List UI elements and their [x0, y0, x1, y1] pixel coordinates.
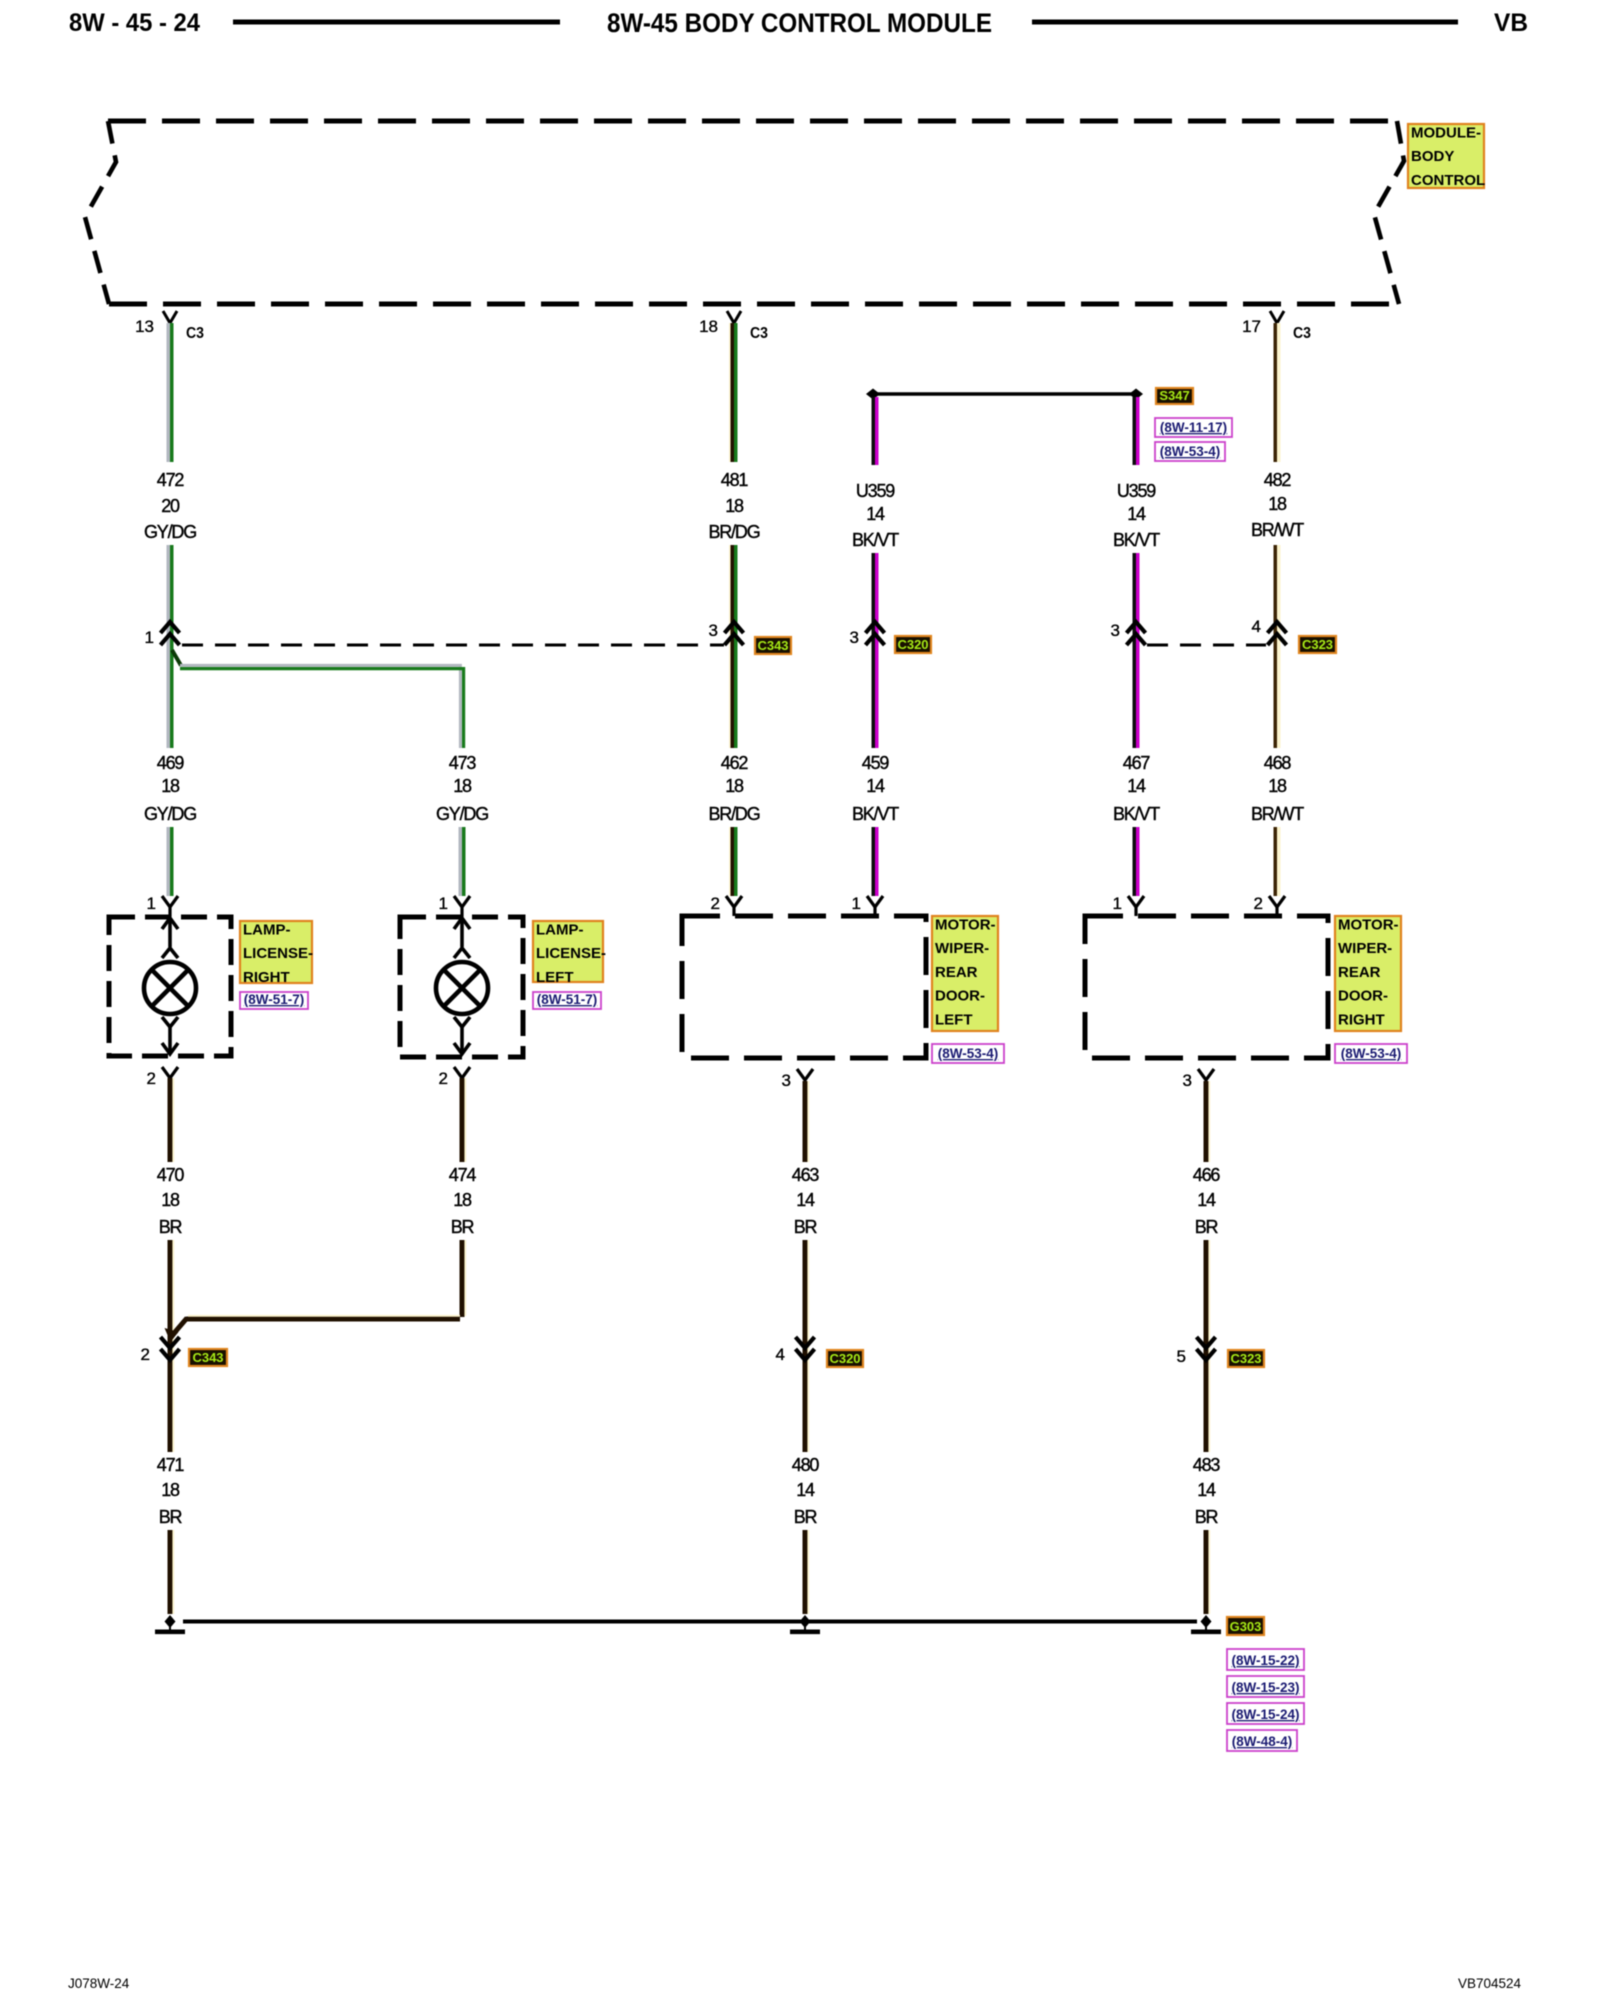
- svg-text:VB: VB: [1494, 9, 1528, 37]
- svg-text:1: 1: [1113, 894, 1122, 913]
- pin lamp right pin 1: [162, 896, 178, 907]
- svg-text:C3: C3: [1293, 325, 1311, 342]
- wire 463 upper: [805, 1081, 808, 1162]
- wire 474 lower with branch into C343: [165, 1240, 466, 1342]
- pin motor right pin 2: [1269, 896, 1285, 907]
- svg-text:CONTROL: CONTROL: [1411, 172, 1485, 189]
- svg-text:C320: C320: [897, 637, 928, 652]
- svg-text:DOOR-: DOOR-: [1338, 988, 1388, 1005]
- svg-text:(8W-53-4): (8W-53-4): [1160, 444, 1221, 459]
- wire 470 lower: [170, 1240, 173, 1452]
- svg-text:1: 1: [439, 894, 448, 913]
- svg-text:MOTOR-: MOTOR-: [1338, 917, 1399, 934]
- in-line connector C323 dashed line: [1147, 644, 1266, 647]
- motor-wiper-rear door-left box: [682, 916, 926, 1058]
- wire label 474 18 BR: [449, 1165, 477, 1237]
- pin C3 pin 13: [163, 311, 177, 323]
- svg-text:(8W-15-22): (8W-15-22): [1232, 1653, 1300, 1668]
- pin C3 pin 18: [727, 311, 741, 323]
- connector label S347: [1156, 388, 1193, 404]
- reference link 8W-53-4 motor right: [1335, 1044, 1407, 1063]
- wire U359 right leg: [1134, 397, 1138, 465]
- svg-text:C323: C323: [1230, 1351, 1261, 1366]
- connector symbol C343 pin 1: [161, 622, 180, 645]
- svg-text:18: 18: [725, 776, 744, 796]
- svg-text:2: 2: [1254, 894, 1263, 913]
- wire 468 lower: [1275, 827, 1279, 896]
- wire label 481 18 BR/DG: [708, 470, 759, 542]
- svg-text:14: 14: [866, 504, 885, 524]
- svg-text:BR: BR: [159, 1507, 183, 1527]
- ground bus wire: [183, 1620, 1197, 1624]
- svg-text:DOOR-: DOOR-: [935, 988, 985, 1005]
- wire label 480 14 BR: [792, 1455, 820, 1527]
- svg-text:474: 474: [449, 1165, 477, 1185]
- svg-text:LICENSE-: LICENSE-: [243, 945, 313, 962]
- wire label 459 14 BK/VT: [852, 753, 899, 824]
- svg-text:8W - 45 - 24: 8W - 45 - 24: [69, 9, 200, 37]
- connector symbol C343 pin 3: [725, 622, 744, 645]
- wire 473 branch horizontal: [180, 665, 464, 748]
- svg-text:GY/DG: GY/DG: [144, 804, 196, 824]
- svg-text:466: 466: [1193, 1165, 1221, 1185]
- svg-text:18: 18: [725, 496, 744, 516]
- reference link 8W-51-7 left: [533, 992, 601, 1009]
- svg-text:BR/WT: BR/WT: [1251, 520, 1304, 540]
- wire label 468 18 BR/WT: [1251, 753, 1304, 824]
- svg-text:BODY: BODY: [1411, 148, 1454, 165]
- wire 481 upper: [730, 323, 736, 462]
- pin motor left pin 1: [867, 896, 883, 907]
- svg-text:WIPER-: WIPER-: [1338, 940, 1392, 957]
- connector label C323 upper: [1299, 636, 1336, 653]
- wire label U359 14 BK/VT: [1113, 481, 1160, 550]
- connector label C323 lower: [1228, 1350, 1264, 1367]
- svg-text:(8W-11-17): (8W-11-17): [1160, 420, 1227, 435]
- svg-text:470: 470: [157, 1165, 185, 1185]
- pin C3 pin 17: [1270, 311, 1284, 323]
- svg-text:3: 3: [782, 1071, 791, 1090]
- wire label U359 14 BK/VT: [852, 481, 899, 550]
- svg-text:BR: BR: [1195, 1217, 1219, 1237]
- svg-text:BK/VT: BK/VT: [852, 804, 899, 824]
- svg-text:18: 18: [1268, 494, 1287, 514]
- svg-text:459: 459: [862, 753, 890, 773]
- svg-text:467: 467: [1123, 753, 1151, 773]
- svg-text:3: 3: [709, 621, 718, 640]
- svg-text:BR/DG: BR/DG: [708, 522, 759, 542]
- wire label 473 18 GY/DG: [436, 753, 488, 824]
- svg-text:462: 462: [721, 753, 749, 773]
- component label motor-wiper-rear door-right: [1335, 916, 1401, 1031]
- wire label 482 18 BR/WT: [1251, 470, 1304, 540]
- connector symbol C320 pin 3: [866, 622, 885, 645]
- svg-text:14: 14: [1127, 776, 1146, 796]
- svg-text:(8W-53-4): (8W-53-4): [1341, 1046, 1402, 1061]
- connector symbol C320 pin 4: [796, 1337, 815, 1360]
- reference link 8W-15-24: [1227, 1703, 1304, 1724]
- lamp right terminal arrow down: [162, 1017, 178, 1054]
- svg-text:18: 18: [1268, 776, 1287, 796]
- svg-text:473: 473: [449, 753, 477, 773]
- pin motor left pin 3: [797, 1069, 813, 1080]
- svg-text:C3: C3: [750, 325, 768, 342]
- reference link 8W-15-23: [1227, 1676, 1304, 1697]
- svg-text:(8W-51-7): (8W-51-7): [537, 992, 598, 1007]
- svg-text:13: 13: [135, 317, 154, 336]
- svg-text:C320: C320: [829, 1351, 860, 1366]
- svg-text:C323: C323: [1302, 637, 1333, 652]
- module-body control box right torn edge: [1374, 121, 1404, 304]
- wire label 471 18 BR: [157, 1455, 185, 1527]
- ground symbol G303 left: [155, 1615, 185, 1634]
- wire 474 upper: [462, 1078, 465, 1162]
- lamp-license-left box: [400, 917, 523, 1057]
- svg-text:BR: BR: [1195, 1507, 1219, 1527]
- wire label 472 20 GY/DG: [144, 470, 196, 542]
- svg-text:20: 20: [161, 496, 180, 516]
- pin lamp left pin 2: [454, 1067, 470, 1078]
- wire 472 lower: [168, 545, 172, 748]
- wire label 462 18 BR/DG: [708, 753, 759, 824]
- wire U359 right lower: [1134, 553, 1138, 748]
- svg-text:3: 3: [1111, 621, 1120, 640]
- wire 471 lower: [170, 1530, 173, 1614]
- svg-text:MODULE-: MODULE-: [1411, 125, 1481, 142]
- svg-text:3: 3: [850, 628, 859, 647]
- svg-text:C3: C3: [186, 325, 204, 342]
- connector label C320 upper: [895, 636, 931, 653]
- svg-text:BR/WT: BR/WT: [1251, 804, 1304, 824]
- wire label 470 18 BR: [157, 1165, 185, 1237]
- svg-text:5: 5: [1177, 1347, 1186, 1366]
- wire label 469 18 GY/DG: [144, 753, 196, 824]
- svg-text:LEFT: LEFT: [935, 1011, 973, 1028]
- pin motor right pin 1: [1128, 896, 1144, 907]
- svg-text:RIGHT: RIGHT: [243, 969, 290, 986]
- svg-text:1: 1: [147, 894, 156, 913]
- svg-text:18: 18: [453, 776, 472, 796]
- svg-text:S347: S347: [1159, 388, 1189, 403]
- svg-text:8W-45 BODY CONTROL MODULE: 8W-45 BODY CONTROL MODULE: [607, 8, 992, 38]
- component label lamp-license-left: [533, 921, 606, 986]
- header rule right: [1032, 20, 1458, 25]
- svg-text:(8W-51-7): (8W-51-7): [244, 992, 305, 1007]
- svg-text:2: 2: [141, 1345, 150, 1364]
- svg-text:REAR: REAR: [935, 964, 978, 981]
- svg-text:LAMP-: LAMP-: [243, 922, 291, 939]
- svg-text:2: 2: [439, 1069, 448, 1088]
- svg-text:14: 14: [1197, 1190, 1216, 1210]
- svg-text:482: 482: [1264, 470, 1292, 490]
- svg-text:1: 1: [852, 894, 861, 913]
- svg-text:(8W-48-4): (8W-48-4): [1232, 1734, 1293, 1749]
- svg-text:18: 18: [161, 1480, 180, 1500]
- svg-text:LICENSE-: LICENSE-: [536, 945, 606, 962]
- svg-text:14: 14: [1197, 1480, 1216, 1500]
- svg-text:BK/VT: BK/VT: [1113, 804, 1160, 824]
- wire U359 left leg: [873, 397, 877, 465]
- svg-text:U359: U359: [1117, 481, 1156, 501]
- svg-text:LAMP-: LAMP-: [536, 922, 584, 939]
- connector symbol C343 pin 2: [161, 1337, 180, 1360]
- pin motor right pin 3: [1198, 1069, 1214, 1080]
- svg-text:J078W-24: J078W-24: [68, 1976, 130, 1991]
- wire 467 lower: [1134, 827, 1138, 896]
- svg-text:14: 14: [796, 1190, 815, 1210]
- wire U359 left lower: [873, 553, 877, 748]
- svg-text:VB704524: VB704524: [1458, 1976, 1522, 1991]
- lamp right terminal arrow up: [162, 918, 178, 958]
- reference link 8W-53-4 motor left: [932, 1044, 1004, 1063]
- svg-text:BR/DG: BR/DG: [708, 804, 759, 824]
- svg-text:18: 18: [161, 776, 180, 796]
- connector label C343 upper: [755, 637, 791, 654]
- splice S347 right junction: [1129, 389, 1143, 400]
- svg-text:BR: BR: [451, 1217, 475, 1237]
- header rule left: [233, 20, 560, 25]
- svg-text:1: 1: [145, 628, 154, 647]
- svg-text:18: 18: [699, 317, 718, 336]
- svg-text:4: 4: [776, 1345, 785, 1364]
- connector symbol C323 pin 4: [1268, 622, 1287, 645]
- module-body control box bottom edge: [109, 302, 1399, 307]
- lamp left terminal arrow up: [454, 918, 470, 958]
- svg-text:MOTOR-: MOTOR-: [935, 917, 996, 934]
- svg-text:WIPER-: WIPER-: [935, 940, 989, 957]
- wire 483 lower: [1206, 1530, 1209, 1614]
- svg-text:RIGHT: RIGHT: [1338, 1011, 1385, 1028]
- reference link 8W-53-4 splice: [1155, 442, 1225, 461]
- reference link 8W-11-17: [1155, 418, 1232, 437]
- svg-text:2: 2: [711, 894, 720, 913]
- splice S347 left junction: [866, 389, 880, 400]
- wire 469 lower: [168, 827, 172, 896]
- svg-text:C343: C343: [757, 638, 788, 653]
- svg-text:4: 4: [1252, 617, 1261, 636]
- svg-text:471: 471: [157, 1455, 185, 1475]
- splice S347 bus: [876, 392, 1133, 395]
- connector symbol C323 pin 3: [1127, 622, 1146, 645]
- component label module-body control: [1408, 124, 1485, 189]
- svg-text:GY/DG: GY/DG: [144, 522, 196, 542]
- reference link 8W-51-7 right: [240, 992, 308, 1009]
- pin lamp right pin 2: [162, 1067, 178, 1078]
- pin motor left pin 2: [726, 896, 742, 907]
- wire 466 lower: [1206, 1240, 1209, 1452]
- svg-text:18: 18: [161, 1190, 180, 1210]
- svg-text:U359: U359: [856, 481, 895, 501]
- svg-text:C343: C343: [192, 1350, 223, 1365]
- lamp left bulb: [436, 962, 488, 1014]
- wire 473 branch diagonal: [172, 650, 181, 666]
- in-line connector C343 dashed line: [182, 644, 724, 647]
- component label motor-wiper-rear door-left: [932, 916, 998, 1031]
- wire 463 lower: [805, 1240, 808, 1452]
- svg-text:GY/DG: GY/DG: [436, 804, 488, 824]
- reference link 8W-15-22: [1227, 1649, 1304, 1670]
- ground symbol G303 middle: [790, 1615, 820, 1634]
- svg-text:BK/VT: BK/VT: [1113, 530, 1160, 550]
- svg-text:3: 3: [1183, 1071, 1192, 1090]
- svg-text:18: 18: [453, 1190, 472, 1210]
- connector label C343 lower: [189, 1349, 227, 1366]
- svg-text:468: 468: [1264, 753, 1292, 773]
- wire 482 upper: [1275, 323, 1279, 462]
- wire label 483 14 BR: [1193, 1455, 1221, 1527]
- wire 462 lower: [730, 827, 736, 896]
- svg-text:472: 472: [157, 470, 185, 490]
- wire label 466 14 BR: [1193, 1165, 1221, 1237]
- svg-text:BR: BR: [159, 1217, 183, 1237]
- lamp-license-right box: [109, 917, 231, 1056]
- svg-text:14: 14: [796, 1480, 815, 1500]
- wire 470 upper: [170, 1078, 173, 1162]
- wire label 463 14 BR: [792, 1165, 820, 1237]
- svg-text:481: 481: [721, 470, 749, 490]
- svg-text:REAR: REAR: [1338, 964, 1381, 981]
- wire label 467 14 BK/VT: [1113, 753, 1160, 824]
- ground symbol G303 right: [1191, 1615, 1221, 1634]
- svg-text:(8W-53-4): (8W-53-4): [938, 1046, 999, 1061]
- svg-text:BR: BR: [794, 1217, 818, 1237]
- lamp right bulb: [144, 962, 196, 1014]
- wire 472 upper: [168, 323, 172, 462]
- lamp left terminal arrow down: [454, 1017, 470, 1054]
- component label lamp-license-right: [240, 921, 313, 986]
- svg-text:(8W-15-24): (8W-15-24): [1232, 1707, 1300, 1722]
- module-body control box top edge: [108, 119, 1397, 124]
- wire 466 upper: [1206, 1081, 1209, 1162]
- svg-text:17: 17: [1242, 317, 1261, 336]
- svg-text:469: 469: [157, 753, 185, 773]
- svg-text:G303: G303: [1230, 1619, 1262, 1634]
- svg-text:BR: BR: [794, 1507, 818, 1527]
- connector symbol C323 pin 5: [1197, 1337, 1216, 1360]
- wire 459 lower: [873, 827, 877, 896]
- reference link 8W-48-4: [1227, 1730, 1297, 1751]
- motor-wiper-rear door-right box: [1085, 916, 1328, 1058]
- wire 480 lower: [805, 1530, 808, 1614]
- wire 473 lower: [460, 827, 464, 896]
- svg-text:(8W-15-23): (8W-15-23): [1232, 1680, 1300, 1695]
- svg-text:483: 483: [1193, 1455, 1221, 1475]
- svg-text:14: 14: [866, 776, 885, 796]
- connector label G303: [1227, 1617, 1264, 1635]
- svg-text:LEFT: LEFT: [536, 969, 574, 986]
- wire 482 lower: [1275, 545, 1279, 748]
- pin lamp left pin 1: [454, 896, 470, 907]
- svg-text:BK/VT: BK/VT: [852, 530, 899, 550]
- svg-text:480: 480: [792, 1455, 820, 1475]
- svg-text:2: 2: [147, 1069, 156, 1088]
- module-body control box left torn edge: [85, 121, 116, 304]
- svg-text:14: 14: [1127, 504, 1146, 524]
- connector label C320 lower: [827, 1350, 863, 1367]
- svg-text:463: 463: [792, 1165, 820, 1185]
- wire 481 lower: [730, 545, 736, 748]
